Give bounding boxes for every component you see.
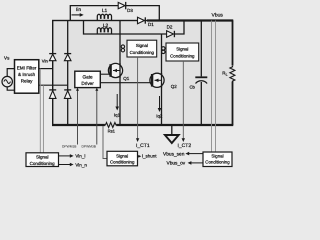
transistor Q2 drain-source wire xyxy=(161,34,163,125)
wire EMI output neutral xyxy=(39,84,68,86)
svg-text:Conditioning: Conditioning xyxy=(30,161,56,166)
signal conditioning box 2 xyxy=(166,43,199,61)
svg-text:Vin: Vin xyxy=(42,58,49,63)
svg-text:Conditioning: Conditioning xyxy=(205,160,230,165)
svg-text:Signal: Signal xyxy=(211,153,223,158)
wire EMI output line xyxy=(39,68,53,70)
svg-text:D2: D2 xyxy=(167,25,173,30)
diode bridge bottom-right xyxy=(64,90,71,99)
capacitor Cb xyxy=(190,21,208,126)
Vin_l output arrow xyxy=(59,153,86,158)
resistor Rs1 (shunt) xyxy=(105,123,117,134)
node DPWM3B label xyxy=(82,144,97,148)
wire D2 cathode riser xyxy=(174,21,184,35)
svg-text:I_CT1: I_CT1 xyxy=(136,143,150,149)
svg-text:Iin: Iin xyxy=(76,7,81,13)
wire shunt sense to signal conditioning xyxy=(103,126,107,159)
resistor RL xyxy=(222,66,236,83)
svg-text:EMI Filter: EMI Filter xyxy=(17,66,37,71)
wire top bypass branch xyxy=(70,6,159,21)
svg-text:Vbus: Vbus xyxy=(211,12,223,18)
svg-text:Vbus_ov: Vbus_ov xyxy=(167,161,186,167)
svg-text:Conditioning: Conditioning xyxy=(110,159,135,164)
gate driver box xyxy=(75,71,101,87)
svg-text:Signal: Signal xyxy=(36,154,49,159)
wire L2 branch xyxy=(84,21,167,35)
node Vbus label xyxy=(211,12,223,18)
svg-text:Gate: Gate xyxy=(83,74,94,79)
wire Vin_l sense line xyxy=(39,69,41,153)
svg-text:D3: D3 xyxy=(127,8,133,13)
svg-text:Vin_l: Vin_l xyxy=(75,153,85,158)
wire PWM input 1 xyxy=(76,88,79,145)
Vbus thick bus wire xyxy=(147,19,233,21)
wire source to EMI filter xyxy=(7,69,14,91)
wire Vbus_ov sense line xyxy=(215,21,217,153)
svg-text:Cb: Cb xyxy=(190,85,196,90)
Vbus_sen output arrow xyxy=(163,152,203,158)
node Vin label xyxy=(42,58,49,63)
signal conditioning box bottom-center xyxy=(107,151,138,166)
wire Vbus_sen sense line xyxy=(211,21,213,153)
wire I_CT1 signal xyxy=(136,57,150,149)
inductor L1 xyxy=(97,8,111,21)
inductor L2 xyxy=(97,23,111,34)
diode bridge top-right xyxy=(64,54,71,61)
diode D3 xyxy=(118,2,133,13)
CT2 coil xyxy=(162,47,165,54)
svg-text:Vin_n: Vin_n xyxy=(75,162,87,167)
svg-text:Conditioning: Conditioning xyxy=(130,50,155,55)
rectifier leg B wire xyxy=(67,21,69,126)
svg-text:DPWM3B: DPWM3B xyxy=(82,144,97,148)
svg-text:L2: L2 xyxy=(103,23,109,29)
wire right edge reinforcement xyxy=(232,21,234,126)
svg-text:L1: L1 xyxy=(102,8,108,14)
svg-text:D1: D1 xyxy=(148,22,154,27)
transistor Q1 xyxy=(108,63,129,81)
diode D1 xyxy=(138,17,155,27)
I_shunt output arrow xyxy=(138,154,158,159)
Iq2 arrow xyxy=(156,96,163,119)
Vbus_ov output arrow xyxy=(167,161,203,167)
svg-text:L: L xyxy=(226,72,228,76)
Iin arrow xyxy=(72,13,84,17)
svg-text:& Inrush: & Inrush xyxy=(18,72,36,77)
svg-text:Signal: Signal xyxy=(176,47,188,52)
svg-text:Vs: Vs xyxy=(4,56,10,61)
wire gate drive to Q2 xyxy=(100,82,151,84)
svg-text:Vbus_sen: Vbus_sen xyxy=(163,152,185,158)
Vin_n output arrow xyxy=(59,162,88,167)
signal conditioning box bottom-left xyxy=(26,153,59,167)
ground xyxy=(165,125,179,143)
power stage panel xyxy=(53,21,233,126)
ac source Vs xyxy=(2,56,12,87)
svg-text:Conditioning: Conditioning xyxy=(170,53,195,58)
diode bridge bottom-left xyxy=(49,90,56,99)
svg-text:Q1: Q1 xyxy=(123,76,130,81)
signal conditioning box 1 xyxy=(127,40,157,57)
diode bridge top-left xyxy=(49,54,56,61)
signal conditioning box bottom-right xyxy=(203,152,232,167)
wire gate drive to Q1 xyxy=(100,73,110,75)
Iq1 arrow xyxy=(114,94,121,118)
svg-text:Iq1: Iq1 xyxy=(114,113,121,118)
svg-text:Signal: Signal xyxy=(116,153,128,158)
wire I_CT2 signal xyxy=(177,61,191,149)
svg-text:I_CT2: I_CT2 xyxy=(177,143,191,149)
transistor Q1 drain-source wire xyxy=(119,21,121,126)
svg-text:Driver: Driver xyxy=(81,81,94,86)
diode D2 xyxy=(167,25,175,38)
node Iin label xyxy=(76,7,81,13)
svg-text:DPWM1B: DPWM1B xyxy=(62,144,77,148)
svg-text:Q2: Q2 xyxy=(171,84,178,89)
EMI filter box xyxy=(15,60,39,93)
wire PWM input 2 xyxy=(95,88,98,145)
svg-text:Iq2: Iq2 xyxy=(156,114,163,119)
svg-text:Signal: Signal xyxy=(136,43,148,48)
node DPWM1B label xyxy=(62,144,77,148)
transistor Q2 xyxy=(150,73,177,89)
svg-text:Relay: Relay xyxy=(21,78,33,83)
return rail (thick bottom wire) xyxy=(52,124,233,126)
CT1 coil xyxy=(121,45,124,52)
svg-text:I_shunt: I_shunt xyxy=(142,154,158,159)
svg-text:Rs1: Rs1 xyxy=(108,128,116,133)
wire Vin_n sense line xyxy=(42,85,44,153)
